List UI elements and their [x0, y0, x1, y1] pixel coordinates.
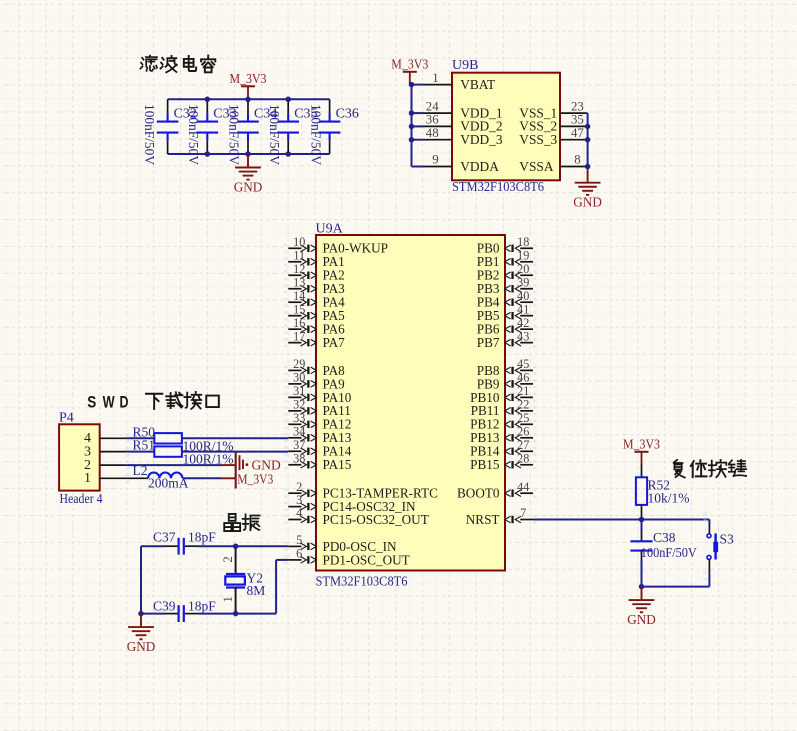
svg-text:100nF/50V: 100nF/50V — [308, 104, 323, 165]
P4 pin 3 — [84, 445, 130, 460]
svg-text:L2: L2 — [133, 463, 148, 478]
U9B pin 36 (VDD_2) — [412, 113, 503, 134]
U9A pin 10 (PA0-WKUP) — [284, 235, 388, 256]
U9B pin 9 (VDDA) — [412, 153, 500, 174]
svg-text:U9A: U9A — [316, 222, 344, 237]
svg-text:C37: C37 — [153, 530, 176, 545]
svg-text:BOOT0: BOOT0 — [457, 486, 500, 501]
U9A pin 41 (PB5) — [477, 302, 536, 323]
wire C39 row to PD1 riser — [198, 560, 288, 614]
svg-text:40: 40 — [517, 289, 529, 303]
ground GND (crystal) — [127, 614, 156, 655]
svg-text:10: 10 — [293, 235, 305, 249]
svg-text:44: 44 — [517, 480, 529, 494]
U9A pin 4 (PC15-OSC32_OUT) — [284, 506, 429, 527]
U9A pin 19 (PB1) — [477, 248, 536, 269]
text title 复位按键 — [674, 460, 746, 478]
U9A pin 27 (PB14) — [470, 438, 536, 459]
wire VSS bus (right of U9B) — [587, 113, 589, 167]
svg-text:1: 1 — [432, 71, 438, 85]
svg-text:1: 1 — [84, 471, 91, 486]
U9A pin 13 (PA3) — [284, 275, 345, 296]
U9A pin 38 (PA15) — [284, 451, 352, 472]
junction dots U9B left — [409, 82, 415, 143]
wire P4.3 to R51 — [126, 451, 154, 453]
svg-text:VSS_3: VSS_3 — [519, 132, 557, 147]
capacitor C38 100nF/50V — [630, 520, 697, 587]
svg-text:24: 24 — [426, 99, 439, 113]
svg-text:PA15: PA15 — [323, 457, 352, 472]
svg-text:D: D — [120, 393, 129, 412]
U9A pin 29 (PA8) — [284, 357, 345, 378]
svg-text:NRST: NRST — [466, 512, 500, 527]
svg-text:18pF: 18pF — [188, 598, 216, 613]
svg-text:36: 36 — [426, 113, 439, 127]
wire P4.2 to GND bar — [126, 464, 236, 466]
svg-text:C39: C39 — [153, 598, 176, 613]
svg-text:27: 27 — [517, 438, 529, 452]
U9A pin 21 (PB10) — [470, 384, 536, 405]
svg-text:1: 1 — [221, 596, 235, 602]
svg-text:18pF: 18pF — [188, 530, 216, 545]
U9B pin 1 (VBAT) — [412, 71, 496, 92]
power port M_3V3 (reset) — [623, 437, 660, 464]
wire NRST to switch — [533, 519, 709, 521]
svg-text:21: 21 — [517, 384, 529, 398]
svg-text:15: 15 — [293, 302, 305, 316]
svg-text:100nF/50V: 100nF/50V — [267, 104, 282, 165]
resistor R50 100R/1% — [133, 424, 234, 453]
U9A pin 12 (PA2) — [284, 262, 345, 283]
U9A pin 14 (PA4) — [284, 289, 345, 310]
svg-text:30: 30 — [293, 370, 305, 384]
P4 pin 4 — [84, 431, 130, 446]
svg-text:2: 2 — [296, 480, 302, 494]
svg-text:17: 17 — [293, 329, 305, 343]
U9A pin 11 (PA1) — [284, 248, 345, 269]
U9A pin 30 (PA9) — [284, 370, 345, 391]
U9A pin 44 (BOOT0) — [457, 480, 536, 501]
U9A pin 3 (PC14-OSC32_IN) — [284, 493, 416, 514]
U9A pin 45 (PB8) — [477, 357, 536, 378]
resistor R51 100R/1% — [133, 438, 234, 467]
svg-text:PC15-OSC32_OUT: PC15-OSC32_OUT — [323, 512, 429, 527]
U9A pin 46 (PB9) — [477, 370, 536, 391]
svg-text:M_3V3: M_3V3 — [237, 471, 273, 486]
wire M_3V3 vertical bus (left of U9B) — [412, 84, 424, 167]
svg-text:U9B: U9B — [452, 58, 478, 73]
U9A pin 39 (PB3) — [477, 275, 536, 296]
U9A pin 7 (NRST) — [466, 506, 536, 527]
P4 pin 1 — [84, 471, 130, 486]
U9B pin 24 (VDD_1) — [412, 99, 503, 120]
svg-text:M_3V3: M_3V3 — [230, 72, 267, 87]
U9A pin 43 (PB7) — [477, 329, 536, 350]
ic U9A STM32F103C8T6 body — [316, 222, 506, 590]
U9A pin 20 (PB2) — [477, 262, 536, 283]
U9A pin 22 (PB11) — [471, 397, 537, 418]
text title SWD 下载接口 — [87, 392, 219, 412]
svg-text:P4: P4 — [59, 411, 74, 426]
U9B pin 23 (VSS_1) — [519, 99, 587, 120]
power port M_3V3 — [230, 72, 267, 99]
U9A pin 16 (PA6) — [284, 316, 345, 337]
U9B pin 8 (VSSA) — [519, 153, 587, 174]
U9B pin 35 (VSS_2) — [519, 113, 587, 134]
connector P4 Header 4 body — [59, 411, 103, 507]
svg-text:37: 37 — [293, 438, 305, 452]
svg-text:M_3V3: M_3V3 — [391, 57, 428, 72]
U9B pin 48 (VDD_3) — [412, 126, 503, 147]
svg-text:PB15: PB15 — [470, 457, 500, 472]
capacitor C37 18pF — [141, 530, 216, 555]
capacitor C32 100nF/50V — [142, 99, 197, 165]
svg-text:8M: 8M — [247, 583, 266, 598]
U9A pin 18 (PB0) — [477, 235, 536, 256]
svg-text:29: 29 — [293, 357, 305, 371]
svg-text:Header 4: Header 4 — [60, 492, 103, 507]
U9A pin 17 (PA7) — [284, 329, 345, 350]
svg-text:38: 38 — [293, 451, 305, 465]
wire left vertical (crystal gnd leg) — [140, 546, 142, 613]
svg-text:26: 26 — [517, 424, 529, 438]
text title 晶振 — [224, 514, 259, 531]
U9A pin 25 (PB12) — [470, 411, 536, 432]
U9A pin 28 (PB15) — [470, 451, 536, 472]
capacitor C36 100nF/50V — [308, 99, 359, 165]
U9A pin 32 (PA11) — [284, 397, 351, 418]
svg-text:42: 42 — [517, 316, 529, 330]
svg-text:100nF/50V: 100nF/50V — [641, 545, 697, 560]
U9A pin 26 (PB13) — [470, 424, 536, 445]
U9A pin 33 (PA12) — [284, 411, 351, 432]
svg-text:46: 46 — [517, 370, 529, 384]
svg-text:C36: C36 — [336, 107, 359, 122]
svg-text:GND: GND — [627, 612, 656, 627]
wire P4.4 to R50 — [126, 437, 154, 439]
svg-text:10k/1%: 10k/1% — [648, 491, 690, 506]
capacitor C33 100nF/50V — [186, 99, 237, 165]
svg-text:100R/1%: 100R/1% — [183, 451, 234, 466]
ground GND (U9B) — [573, 167, 602, 210]
wire bottom rail — [168, 153, 330, 155]
svg-text:GND: GND — [234, 180, 263, 195]
junction dot NRST node — [639, 517, 645, 523]
svg-text:S3: S3 — [720, 532, 735, 547]
U9B pin 47 (VSS_3) — [519, 126, 587, 147]
svg-text:43: 43 — [517, 329, 529, 343]
svg-text:19: 19 — [517, 248, 529, 262]
svg-text:100nF/50V: 100nF/50V — [186, 104, 201, 165]
wire top rail — [168, 98, 330, 100]
svg-text:28: 28 — [517, 451, 529, 465]
svg-text:PD1-OSC_OUT: PD1-OSC_OUT — [323, 552, 410, 567]
svg-text:100nF/50V: 100nF/50V — [142, 104, 157, 165]
U9A pin 40 (PB4) — [477, 289, 536, 310]
svg-text:25: 25 — [517, 411, 529, 425]
svg-text:GND: GND — [252, 457, 281, 472]
U9A pin 42 (PB6) — [477, 316, 536, 337]
svg-text:12: 12 — [293, 262, 305, 276]
svg-text:GND: GND — [573, 195, 602, 210]
svg-text:22: 22 — [517, 397, 529, 411]
U9A pin 34 (PA13) — [284, 424, 352, 445]
capacitor C34 100nF/50V — [227, 99, 278, 165]
svg-text:VSSA: VSSA — [519, 159, 554, 174]
wire bottom row reset — [642, 586, 710, 588]
switch S3 — [704, 512, 735, 586]
svg-text:18: 18 — [517, 235, 529, 249]
svg-text:S: S — [87, 393, 96, 412]
U9A pin 15 (PA5) — [284, 302, 345, 323]
svg-text:C38: C38 — [653, 530, 676, 545]
svg-text:14: 14 — [293, 289, 305, 303]
U9A pin 5 (PD0-OSC_IN) — [284, 533, 397, 554]
ground GND (reset) — [627, 587, 656, 628]
svg-text:32: 32 — [293, 397, 305, 411]
svg-text:20: 20 — [517, 262, 529, 276]
svg-text:STM32F103C8T6: STM32F103C8T6 — [452, 180, 544, 195]
junction dots U9B right — [585, 124, 591, 170]
junction dots crystal — [138, 543, 238, 616]
wire L2 to M_3V3 bar — [183, 477, 236, 479]
svg-text:23: 23 — [571, 99, 584, 113]
svg-text:VDDA: VDDA — [460, 159, 499, 174]
svg-text:31: 31 — [293, 384, 305, 398]
wire R51 to U9A PA14 — [182, 451, 288, 453]
svg-text:7: 7 — [520, 506, 526, 520]
svg-text:R51: R51 — [133, 438, 156, 453]
wire C37 to PD0 pin — [198, 545, 288, 547]
svg-text:11: 11 — [293, 248, 305, 262]
svg-text:16: 16 — [293, 316, 305, 330]
svg-text:4: 4 — [296, 506, 302, 520]
ic U9B STM32F103C8T6 body — [452, 58, 560, 195]
ground GND (cap bank) — [234, 154, 263, 195]
text title 滤波电容 — [140, 56, 215, 73]
capacitor C39 18pF — [141, 598, 216, 622]
svg-text:VDD_3: VDD_3 — [460, 132, 503, 147]
svg-text:34: 34 — [293, 424, 305, 438]
svg-text:GND: GND — [127, 639, 156, 654]
U9A pin 37 (PA14) — [284, 438, 352, 459]
junction dots on rails — [205, 97, 291, 157]
svg-text:13: 13 — [293, 275, 305, 289]
U9A pin 31 (PA10) — [284, 384, 352, 405]
power port GND bar style (SWD) — [236, 452, 281, 488]
svg-text:100nF/50V: 100nF/50V — [227, 104, 242, 165]
svg-text:VBAT: VBAT — [460, 77, 495, 92]
svg-text:41: 41 — [517, 302, 529, 316]
svg-text:39: 39 — [517, 275, 529, 289]
svg-text:3: 3 — [296, 493, 302, 507]
svg-text:W: W — [103, 393, 116, 412]
junction dot bottom reset — [639, 584, 645, 590]
svg-text:STM32F103C8T6: STM32F103C8T6 — [316, 575, 408, 590]
U9A pin 2 (PC13-TAMPER-RTC) — [284, 480, 438, 501]
svg-text:48: 48 — [426, 126, 439, 140]
U9A pin 6 (PD1-OSC_OUT) — [284, 547, 410, 568]
crystal Y2 8M — [221, 546, 265, 613]
power port M_3V3 (U9B) — [391, 57, 428, 84]
svg-text:6: 6 — [296, 547, 302, 561]
svg-text:8: 8 — [574, 153, 580, 167]
svg-text:5: 5 — [296, 533, 302, 547]
svg-text:PA7: PA7 — [323, 335, 346, 350]
svg-text:2: 2 — [221, 556, 235, 562]
svg-text:PB7: PB7 — [477, 335, 500, 350]
power port M_3V3 bar style (SWD) — [237, 471, 273, 486]
svg-text:9: 9 — [432, 153, 438, 167]
svg-text:35: 35 — [571, 113, 584, 127]
svg-text:45: 45 — [517, 357, 529, 371]
svg-text:33: 33 — [293, 411, 305, 425]
svg-text:47: 47 — [571, 126, 584, 140]
svg-text:M_3V3: M_3V3 — [623, 437, 660, 452]
capacitor C35 100nF/50V — [267, 99, 318, 165]
wire R50 to U9A PA13 — [182, 437, 288, 439]
inductor L2 200mA — [126, 463, 189, 490]
resistor R52 10k/1% — [636, 465, 690, 520]
P4 pin 2 — [84, 458, 130, 473]
